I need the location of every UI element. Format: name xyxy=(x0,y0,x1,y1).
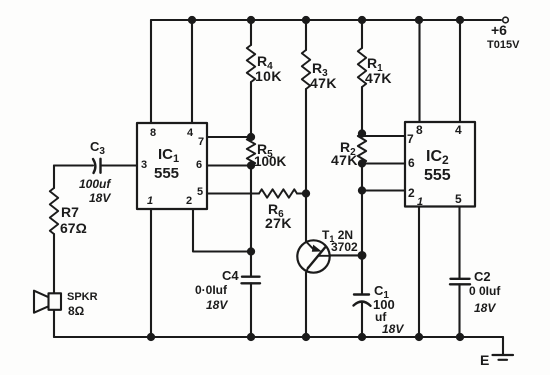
IC1 pin 1 wire to bottom rail xyxy=(150,209,152,337)
wire: R5 bottom down to C4 xyxy=(250,166,252,277)
svg-text:1: 1 xyxy=(147,195,153,207)
svg-text:7: 7 xyxy=(407,132,414,146)
junction: IC2 pin 8 wire / top rail xyxy=(416,17,422,23)
junction: pin4 wire / top rail xyxy=(189,17,195,23)
wire: T1 emitter to bottom rail xyxy=(305,273,307,338)
junction: T1 collector / bottom rail xyxy=(303,334,309,340)
wire: R1 to R2 xyxy=(361,87,363,134)
wire: C1 to bottom rail xyxy=(361,302,363,338)
wire: R2 bottom down to C1 xyxy=(361,164,363,295)
junction: IC1 pin1 / bottom rail xyxy=(148,334,154,340)
svg-text:555: 555 xyxy=(424,167,451,184)
IC2 pin 1 wire to bottom rail xyxy=(418,207,420,338)
resistor R6 xyxy=(259,189,297,197)
svg-text:8Ω: 8Ω xyxy=(68,304,85,318)
svg-text:10K: 10K xyxy=(255,68,282,84)
IC1 pin 6 wire xyxy=(207,164,251,166)
svg-text:5: 5 xyxy=(197,186,203,198)
svg-text:2: 2 xyxy=(186,195,192,207)
junction: R3 branch / top rail xyxy=(303,17,309,23)
wire: R3 to transistor T1 emitter xyxy=(305,89,307,242)
svg-text:3: 3 xyxy=(141,159,147,171)
wire: R4 to R5 node xyxy=(250,82,252,137)
IC2 pin 6 wire xyxy=(362,162,405,164)
IC2 pin 4 wire xyxy=(459,20,461,122)
IC1 pin 2 wire to C4 node xyxy=(193,209,251,252)
svg-text:18V: 18V xyxy=(474,301,496,315)
wire: left corner to C3 xyxy=(54,164,93,166)
junction: R4 branch / top rail xyxy=(248,17,254,23)
wire: +V top supply rail xyxy=(151,19,501,21)
capacitor C4 xyxy=(242,277,261,284)
resistor R1 xyxy=(358,48,366,87)
junction: C4 / bottom rail xyxy=(248,334,254,340)
svg-text:555: 555 xyxy=(154,165,179,182)
svg-text:SPKR: SPKR xyxy=(67,291,98,303)
resistor R7 xyxy=(50,188,58,234)
svg-text:47K: 47K xyxy=(331,152,358,168)
terminal: +6V supply point xyxy=(503,17,509,23)
resistor R2 xyxy=(358,134,366,164)
resistor R4 xyxy=(247,45,255,82)
IC2 pin 5 wire to C2 xyxy=(458,207,460,279)
junction: IC2 pin1 / bottom rail xyxy=(416,334,422,340)
svg-text:18V: 18V xyxy=(89,191,111,205)
svg-text:18V: 18V xyxy=(206,298,228,312)
svg-text:0 0Iuf: 0 0Iuf xyxy=(469,284,501,298)
svg-text:67Ω: 67Ω xyxy=(60,220,87,236)
speaker SPKR xyxy=(34,291,61,313)
junction: T1 base node xyxy=(359,252,366,259)
transistor T1 body xyxy=(297,240,330,272)
svg-text:2: 2 xyxy=(408,186,415,200)
IC2 pin 8 wire xyxy=(418,20,420,122)
junction: IC2 pin 2 node xyxy=(359,187,365,193)
capacitor C3 (polarized) xyxy=(93,159,101,173)
junction: IC2 pin 6 node xyxy=(359,160,365,166)
wire: corner down to R7 xyxy=(53,166,55,189)
svg-text:T015V: T015V xyxy=(487,39,520,51)
svg-text:8: 8 xyxy=(416,123,423,137)
svg-text:6: 6 xyxy=(196,159,202,171)
junction: R1 branch / top rail xyxy=(359,17,365,23)
junction: IC1 pin 6 node xyxy=(248,162,254,168)
svg-text:0·0Iuf: 0·0Iuf xyxy=(195,283,228,297)
IC1 pin 5 wire to R6 xyxy=(207,192,259,194)
svg-text:C4: C4 xyxy=(222,268,239,283)
junction: C1 / bottom rail xyxy=(359,334,365,340)
capacitor C1 (polarized) xyxy=(354,295,371,306)
ground symbol E xyxy=(493,355,514,360)
wire: C2 to bottom rail xyxy=(458,284,460,337)
wire: top rail to R4 xyxy=(250,20,252,45)
junction: IC1 pin 7 node xyxy=(248,134,254,140)
svg-text:+6: +6 xyxy=(491,22,507,38)
junction: IC2 pin 4 wire / top rail xyxy=(457,17,463,23)
wire: T1 base to node xyxy=(330,254,363,256)
svg-text:7: 7 xyxy=(198,136,204,148)
svg-text:E: E xyxy=(480,352,489,368)
junction: C2 / bottom rail xyxy=(457,334,463,340)
wire: IC1 pin 8 to top rail xyxy=(150,20,152,123)
svg-text:4: 4 xyxy=(187,127,194,139)
wire: top rail to R3 xyxy=(305,20,307,50)
svg-text:27K: 27K xyxy=(265,215,292,231)
wire: R7 to bottom rail (through speaker) xyxy=(53,234,55,337)
junction: IC2 pin 7 node xyxy=(359,130,365,136)
junction: R6 / R3 node xyxy=(303,190,309,196)
svg-text:18V: 18V xyxy=(382,322,404,336)
svg-text:C3: C3 xyxy=(90,139,105,157)
wire: IC1 pin 4 to top rail xyxy=(191,20,193,123)
svg-text:47K: 47K xyxy=(365,70,392,86)
svg-text:47K: 47K xyxy=(310,75,337,91)
svg-text:8: 8 xyxy=(150,127,156,139)
IC2 pin 2 wire xyxy=(362,189,405,191)
IC1 body xyxy=(137,123,207,209)
svg-text:1: 1 xyxy=(417,196,423,208)
wire: top rail to R1 xyxy=(361,20,363,48)
ground lead xyxy=(502,337,504,355)
svg-text:5: 5 xyxy=(455,192,462,206)
capacitor C2 xyxy=(450,279,470,285)
svg-text:100K: 100K xyxy=(254,154,287,169)
svg-text:R7: R7 xyxy=(61,204,79,220)
svg-text:100uf: 100uf xyxy=(79,177,111,191)
IC1 pin 7 wire xyxy=(207,136,251,138)
wire: C4 to bottom rail xyxy=(250,283,252,337)
resistor R3 xyxy=(302,50,310,89)
svg-text:C2: C2 xyxy=(474,269,491,284)
svg-text:4: 4 xyxy=(455,123,462,137)
wire: bottom ground rail xyxy=(54,336,503,338)
wire: R6 to R3 branch xyxy=(297,192,306,194)
wire: C3 to IC1 pin 3 xyxy=(101,164,138,166)
junction: IC1 pin 2 / C4 node xyxy=(248,248,254,254)
resistor R5 xyxy=(247,137,255,166)
svg-text:3702: 3702 xyxy=(331,240,358,254)
IC2 body xyxy=(405,122,475,207)
svg-text:6: 6 xyxy=(408,156,415,170)
IC2 pin 7 wire xyxy=(362,135,405,137)
